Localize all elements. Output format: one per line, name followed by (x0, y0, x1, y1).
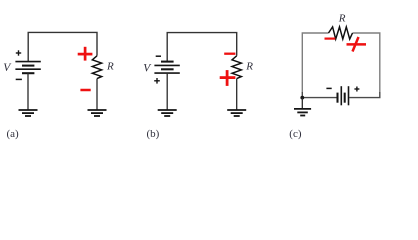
svg-text:(a): (a) (7, 128, 20, 140)
wire: junction to ground (c) (301, 98, 303, 109)
label + of battery (c) (354, 87, 359, 92)
red polarity - annotation at resistor left (c) (325, 37, 336, 39)
resistor R (a) (92, 56, 101, 79)
svg-text:V: V (143, 62, 152, 74)
wire: top wire from battery V to resistor R (b) (167, 33, 237, 62)
wire: resistor R to ground (b) (236, 79, 238, 110)
svg-text:R: R (106, 61, 114, 73)
ground at bottom-left (c) (294, 109, 311, 116)
battery (c) (338, 86, 349, 105)
battery V (b) (154, 62, 179, 74)
wire: rectangular loop (c) (302, 33, 380, 93)
red polarity + annotation at resistor right (c), tilted (347, 37, 367, 52)
red polarity - annotation at resistor top (b) (224, 53, 235, 55)
wire: bottom wire of loop with battery (c) (302, 92, 380, 98)
wire: battery V to ground (b) (166, 73, 168, 110)
label - of battery (c) (326, 87, 331, 89)
svg-text:(b): (b) (147, 128, 160, 140)
wire: battery V to ground (a) (27, 73, 29, 110)
svg-text:(c): (c) (289, 128, 302, 140)
red polarity + annotation at resistor bottom (b) (220, 70, 236, 86)
resistor R (c) (329, 27, 353, 39)
node: junction dot at bottom-left (c) (300, 96, 304, 100)
wire: top wire from battery V to resistor R (a) (28, 32, 97, 61)
label - of battery V (b) (156, 55, 161, 57)
label - of battery V (a) (16, 78, 22, 80)
ground below resistor (b) (227, 110, 246, 116)
wire: resistor R to ground (a) (96, 79, 98, 110)
red polarity - annotation at resistor bottom (a) (80, 89, 90, 92)
red polarity + annotation at resistor top (a) (78, 47, 93, 61)
svg-text:R: R (245, 61, 253, 73)
svg-text:V: V (3, 62, 12, 74)
svg-text:R: R (338, 13, 346, 25)
ground below battery (a) (19, 110, 38, 116)
ground below battery (b) (158, 110, 177, 116)
resistor R (b) (232, 56, 241, 79)
label + of battery V (a) (16, 50, 21, 55)
label + of battery V (b) (154, 78, 160, 84)
ground below resistor (a) (88, 110, 107, 116)
battery V (a) (15, 62, 40, 74)
